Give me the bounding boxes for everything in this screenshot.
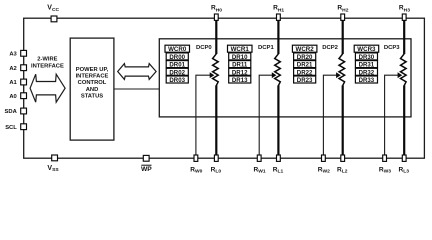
svg-text:A1: A1 — [9, 80, 17, 86]
wire RH1 to resistor — [277, 18, 279, 54]
pin VSS — [52, 155, 58, 161]
svg-text:A0: A0 — [9, 94, 16, 100]
svg-text:WCR1: WCR1 — [231, 46, 250, 53]
svg-text:SCL: SCL — [5, 125, 17, 131]
pin RH0 — [214, 14, 218, 20]
svg-text:DR01: DR01 — [169, 62, 185, 69]
pin A0 — [21, 93, 27, 99]
pin A2 — [21, 65, 27, 71]
pin RL2 — [341, 155, 345, 161]
register DR23 — [294, 76, 316, 83]
outer border frame — [24, 18, 425, 158]
wire wiper RW2 — [323, 75, 339, 158]
pin RH1 — [277, 14, 281, 20]
svg-text:SDA: SDA — [5, 109, 18, 115]
svg-text:DR32: DR32 — [359, 69, 375, 76]
svg-text:DCP1: DCP1 — [258, 45, 274, 51]
pin WP — [143, 155, 149, 161]
pin SDA — [21, 108, 27, 114]
svg-text:DR12: DR12 — [232, 69, 248, 76]
svg-text:WCR2: WCR2 — [295, 46, 314, 53]
pin RL1 — [277, 155, 281, 161]
bus arrow: address/serial pins to control block — [30, 74, 65, 102]
pin RL0 — [214, 155, 218, 161]
wiper arrowhead 1 — [272, 72, 277, 78]
resistor DCP2 element — [339, 54, 345, 86]
wire wiper RW0 — [196, 75, 213, 158]
svg-text:2-WIRE: 2-WIRE — [37, 57, 57, 63]
svg-text:DCP3: DCP3 — [384, 45, 400, 51]
register DR20 — [294, 53, 316, 60]
resistor DCP1 element — [275, 54, 281, 86]
svg-text:DCP2: DCP2 — [322, 45, 338, 51]
wire wiper RW1 — [259, 75, 275, 158]
resistor DCP0 element — [213, 54, 219, 86]
pin VCC — [51, 16, 57, 22]
svg-text:WCR3: WCR3 — [357, 46, 376, 53]
register WCR2 — [292, 45, 317, 52]
svg-text:WCR0: WCR0 — [168, 46, 187, 53]
resistor DCP3 element — [401, 54, 407, 86]
wiper arrowhead 2 — [336, 72, 341, 78]
wire RH2 to resistor — [342, 18, 344, 54]
pin A3 — [21, 50, 27, 56]
wire: control block to DCP box — [114, 88, 159, 90]
pin RH3 — [402, 14, 406, 20]
svg-text:CONTROL: CONTROL — [78, 80, 107, 86]
register DR21 — [294, 61, 316, 68]
svg-text:DR02: DR02 — [169, 69, 185, 76]
register DR02 — [166, 68, 188, 75]
register WCR0 — [165, 45, 190, 52]
register DR22 — [294, 68, 316, 75]
pin RW1 — [257, 155, 261, 161]
block: power up, interface control and status — [70, 38, 114, 140]
pin RW3 — [383, 155, 387, 161]
svg-text:DR00: DR00 — [169, 54, 185, 61]
WP overline — [141, 164, 151, 166]
block: DCP array box — [159, 39, 411, 117]
pin RW0 — [194, 155, 198, 161]
svg-text:POWER UP,: POWER UP, — [76, 67, 109, 73]
bus arrow: control block to DCP array — [118, 64, 156, 80]
svg-text:INTERFACE: INTERFACE — [31, 63, 64, 69]
register DR11 — [229, 61, 251, 68]
pin RH2 — [341, 14, 345, 20]
svg-text:DR31: DR31 — [359, 62, 375, 69]
svg-text:DCP0: DCP0 — [196, 45, 212, 51]
svg-text:WP: WP — [141, 166, 152, 173]
svg-text:DR33: DR33 — [359, 77, 375, 84]
wire resistor to RL0 — [215, 85, 217, 158]
wire RH0 to resistor — [215, 18, 217, 54]
svg-text:STATUS: STATUS — [81, 94, 103, 100]
wiper arrowhead 3 — [398, 72, 403, 78]
wire resistor to RL3 — [403, 85, 405, 158]
wiper arrowhead 0 — [210, 72, 215, 78]
register WCR1 — [228, 45, 253, 52]
register DR03 — [166, 76, 188, 83]
svg-text:A3: A3 — [9, 51, 17, 57]
pin RL3 — [402, 155, 406, 161]
svg-text:DR11: DR11 — [232, 62, 248, 69]
svg-text:DR10: DR10 — [232, 54, 248, 61]
svg-text:DR13: DR13 — [232, 77, 248, 84]
register DR10 — [229, 53, 251, 60]
pin RW2 — [322, 155, 326, 161]
svg-text:AND: AND — [86, 87, 99, 93]
register DR32 — [355, 68, 377, 75]
pin SCL — [21, 124, 27, 130]
register DR31 — [355, 61, 377, 68]
register DR30 — [355, 53, 377, 60]
pin A1 — [21, 79, 27, 85]
svg-text:DR20: DR20 — [297, 54, 313, 61]
register DR13 — [229, 76, 251, 83]
register DR01 — [166, 61, 188, 68]
svg-text:DR03: DR03 — [169, 77, 185, 84]
svg-text:DR21: DR21 — [297, 62, 313, 69]
wire RH3 to resistor — [403, 18, 405, 54]
register DR33 — [355, 76, 377, 83]
svg-text:A2: A2 — [9, 66, 16, 72]
register DR12 — [229, 68, 251, 75]
wire resistor to RL1 — [277, 85, 279, 158]
svg-text:DR22: DR22 — [297, 69, 313, 76]
svg-text:INTERFACE: INTERFACE — [76, 74, 109, 80]
svg-text:DR30: DR30 — [359, 54, 375, 61]
svg-text:DR23: DR23 — [297, 77, 313, 84]
register WCR3 — [354, 45, 379, 52]
register DR00 — [166, 53, 188, 60]
wire resistor to RL2 — [342, 85, 344, 158]
wire wiper RW3 — [385, 75, 401, 158]
